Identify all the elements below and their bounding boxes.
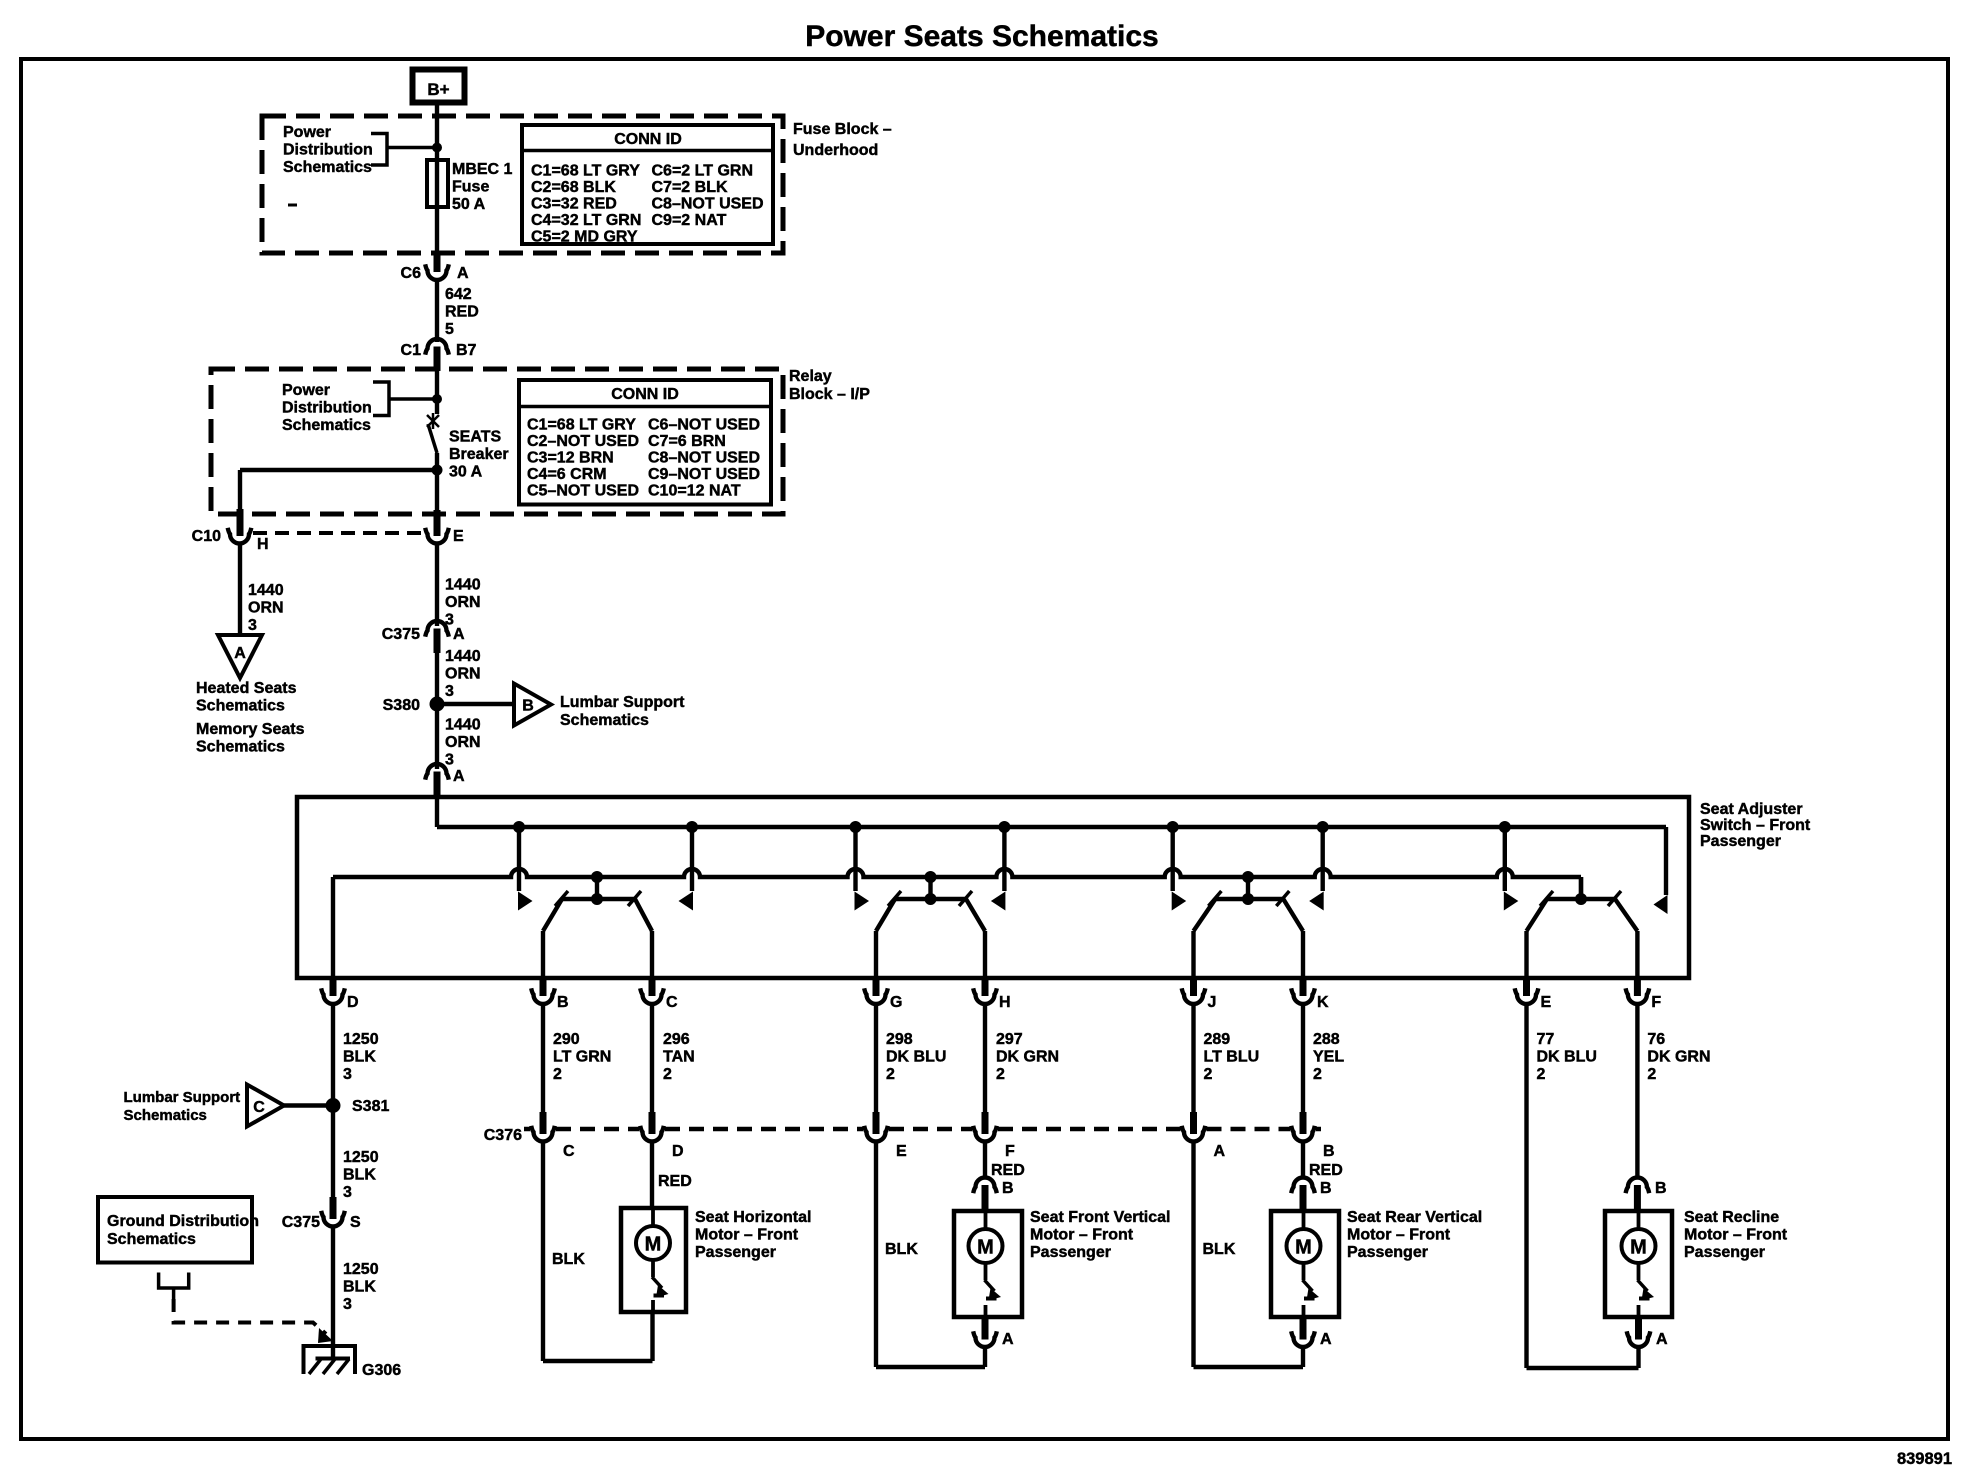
svg-text:M: M xyxy=(977,1237,994,1259)
svg-text:2: 2 xyxy=(1313,1066,1322,1083)
svg-text:B: B xyxy=(522,698,534,715)
svg-text:S380: S380 xyxy=(383,697,420,714)
svg-text:C3=12 BRN: C3=12 BRN xyxy=(527,450,614,467)
svg-text:D: D xyxy=(347,994,359,1011)
svg-text:C376: C376 xyxy=(484,1127,522,1144)
svg-text:Power Seats Schematics: Power Seats Schematics xyxy=(805,20,1159,53)
svg-text:MBEC 1: MBEC 1 xyxy=(452,161,513,178)
svg-text:ORN: ORN xyxy=(445,666,481,683)
svg-text:290: 290 xyxy=(553,1031,580,1048)
svg-text:C: C xyxy=(253,1099,265,1116)
svg-text:C1=68 LT GRY: C1=68 LT GRY xyxy=(531,163,640,180)
svg-text:G306: G306 xyxy=(362,1362,401,1379)
svg-text:C2–NOT USED: C2–NOT USED xyxy=(527,433,639,450)
svg-text:LT BLU: LT BLU xyxy=(1204,1049,1260,1066)
svg-text:CONN ID: CONN ID xyxy=(611,386,679,403)
svg-text:A: A xyxy=(453,768,465,785)
svg-text:2: 2 xyxy=(553,1066,562,1083)
svg-text:BLK: BLK xyxy=(1203,1241,1236,1258)
svg-text:F: F xyxy=(1005,1143,1015,1160)
svg-text:M: M xyxy=(1630,1237,1647,1259)
svg-text:1440: 1440 xyxy=(445,648,481,665)
svg-text:C: C xyxy=(666,994,678,1011)
svg-text:A: A xyxy=(1320,1331,1332,1348)
svg-text:SEATS: SEATS xyxy=(449,429,501,446)
svg-text:76: 76 xyxy=(1647,1031,1665,1048)
svg-text:A: A xyxy=(1656,1331,1668,1348)
svg-text:C5=2 MD GRY: C5=2 MD GRY xyxy=(531,229,638,246)
svg-text:C7=6 BRN: C7=6 BRN xyxy=(648,433,726,450)
svg-text:Heated Seats: Heated Seats xyxy=(196,680,297,697)
svg-text:C1=68 LT GRY: C1=68 LT GRY xyxy=(527,417,636,434)
svg-text:1440: 1440 xyxy=(248,582,284,599)
svg-text:2: 2 xyxy=(1204,1066,1213,1083)
svg-text:Motor – Front: Motor – Front xyxy=(1684,1227,1788,1244)
svg-text:S381: S381 xyxy=(352,1098,389,1115)
svg-text:Relay: Relay xyxy=(789,368,832,385)
svg-text:C4=6 CRM: C4=6 CRM xyxy=(527,466,607,483)
svg-text:RED: RED xyxy=(1309,1162,1343,1179)
svg-text:C1: C1 xyxy=(401,342,422,359)
svg-text:E: E xyxy=(1541,994,1552,1011)
svg-text:J: J xyxy=(1208,994,1217,1011)
svg-text:3: 3 xyxy=(343,1184,352,1201)
svg-text:B: B xyxy=(1655,1180,1667,1197)
svg-text:2: 2 xyxy=(1537,1066,1546,1083)
svg-text:BLK: BLK xyxy=(343,1167,376,1184)
svg-text:5: 5 xyxy=(445,321,454,338)
svg-text:K: K xyxy=(1317,994,1329,1011)
svg-text:288: 288 xyxy=(1313,1031,1340,1048)
svg-text:B: B xyxy=(557,994,569,1011)
svg-text:A: A xyxy=(457,265,469,282)
svg-text:Passenger: Passenger xyxy=(695,1244,776,1261)
svg-text:296: 296 xyxy=(663,1031,690,1048)
svg-text:Seat Recline: Seat Recline xyxy=(1684,1209,1779,1226)
svg-text:30 A: 30 A xyxy=(449,464,483,481)
svg-text:2: 2 xyxy=(886,1066,895,1083)
svg-text:G: G xyxy=(890,994,902,1011)
svg-text:TAN: TAN xyxy=(663,1049,695,1066)
svg-text:Breaker: Breaker xyxy=(449,446,509,463)
svg-text:E: E xyxy=(453,528,464,545)
svg-text:C375: C375 xyxy=(282,1214,320,1231)
svg-text:C8–NOT USED: C8–NOT USED xyxy=(648,450,760,467)
svg-text:BLK: BLK xyxy=(343,1049,376,1066)
svg-text:B: B xyxy=(1320,1180,1332,1197)
svg-text:298: 298 xyxy=(886,1031,913,1048)
svg-text:C: C xyxy=(563,1143,575,1160)
svg-text:Seat Front Vertical: Seat Front Vertical xyxy=(1030,1209,1171,1226)
svg-text:Lumbar Support: Lumbar Support xyxy=(560,694,685,711)
svg-text:DK BLU: DK BLU xyxy=(1537,1049,1597,1066)
svg-text:E: E xyxy=(896,1143,907,1160)
svg-text:2: 2 xyxy=(1647,1066,1656,1083)
svg-text:3: 3 xyxy=(343,1296,352,1313)
svg-text:297: 297 xyxy=(996,1031,1023,1048)
svg-text:Passenger: Passenger xyxy=(1030,1244,1111,1261)
svg-text:M: M xyxy=(1295,1237,1312,1259)
svg-text:H: H xyxy=(999,994,1011,1011)
svg-text:ORN: ORN xyxy=(248,600,284,617)
svg-text:B+: B+ xyxy=(427,80,449,99)
svg-text:DK BLU: DK BLU xyxy=(886,1049,946,1066)
svg-text:50 A: 50 A xyxy=(452,196,486,213)
svg-text:642: 642 xyxy=(445,286,472,303)
svg-text:Ground Distribution: Ground Distribution xyxy=(107,1213,259,1230)
svg-text:A: A xyxy=(234,645,246,662)
svg-text:Motor – Front: Motor – Front xyxy=(695,1227,799,1244)
svg-text:Distribution: Distribution xyxy=(282,400,372,417)
svg-text:C10: C10 xyxy=(192,528,221,545)
svg-text:Fuse Block –: Fuse Block – xyxy=(793,121,892,138)
svg-text:Schematics: Schematics xyxy=(196,698,285,715)
svg-text:M: M xyxy=(645,1234,662,1256)
svg-text:3: 3 xyxy=(343,1066,352,1083)
svg-text:Fuse: Fuse xyxy=(452,179,489,196)
svg-text:D: D xyxy=(672,1143,684,1160)
svg-text:C8–NOT USED: C8–NOT USED xyxy=(652,196,764,213)
svg-text:Switch – Front: Switch – Front xyxy=(1700,817,1811,834)
svg-text:RED: RED xyxy=(658,1173,692,1190)
svg-text:BLK: BLK xyxy=(343,1279,376,1296)
svg-text:H: H xyxy=(257,536,269,553)
svg-text:1250: 1250 xyxy=(343,1031,379,1048)
svg-text:Distribution: Distribution xyxy=(283,142,373,159)
svg-text:3: 3 xyxy=(248,617,257,634)
svg-text:2: 2 xyxy=(996,1066,1005,1083)
svg-text:YEL: YEL xyxy=(1313,1049,1344,1066)
svg-text:Power: Power xyxy=(283,124,331,141)
svg-text:Passenger: Passenger xyxy=(1347,1244,1428,1261)
svg-text:Power: Power xyxy=(282,382,330,399)
svg-text:C2=68 BLK: C2=68 BLK xyxy=(531,179,616,196)
svg-text:C9–NOT USED: C9–NOT USED xyxy=(648,466,760,483)
svg-text:C6–NOT USED: C6–NOT USED xyxy=(648,417,760,434)
svg-text:B: B xyxy=(1002,1180,1014,1197)
svg-text:Block – I/P: Block – I/P xyxy=(789,386,870,403)
svg-text:CONN ID: CONN ID xyxy=(614,131,682,148)
svg-text:C4=32 LT GRN: C4=32 LT GRN xyxy=(531,212,641,229)
svg-text:RED: RED xyxy=(445,304,479,321)
svg-text:289: 289 xyxy=(1204,1031,1231,1048)
svg-text:1440: 1440 xyxy=(445,577,481,594)
svg-text:Schematics: Schematics xyxy=(282,417,371,434)
svg-text:Schematics: Schematics xyxy=(560,712,649,729)
svg-text:S: S xyxy=(350,1214,361,1231)
svg-text:Schematics: Schematics xyxy=(196,739,285,756)
svg-text:BLK: BLK xyxy=(552,1251,585,1268)
svg-text:C7=2 BLK: C7=2 BLK xyxy=(652,179,728,196)
svg-text:Motor – Front: Motor – Front xyxy=(1030,1227,1134,1244)
svg-text:C6=2 LT GRN: C6=2 LT GRN xyxy=(652,163,754,180)
svg-text:Underhood: Underhood xyxy=(793,142,878,159)
svg-text:A: A xyxy=(453,626,465,643)
svg-text:A: A xyxy=(1214,1143,1226,1160)
svg-text:RED: RED xyxy=(991,1162,1025,1179)
svg-text:839891: 839891 xyxy=(1897,1450,1952,1468)
svg-text:Passenger: Passenger xyxy=(1700,833,1781,850)
svg-text:BLK: BLK xyxy=(885,1241,918,1258)
svg-text:3: 3 xyxy=(445,683,454,700)
svg-text:C5–NOT USED: C5–NOT USED xyxy=(527,483,639,500)
svg-text:Seat Horizontal: Seat Horizontal xyxy=(695,1209,811,1226)
svg-text:C6: C6 xyxy=(401,265,422,282)
svg-text:A: A xyxy=(1002,1331,1014,1348)
svg-text:LT GRN: LT GRN xyxy=(553,1049,611,1066)
svg-text:Memory Seats: Memory Seats xyxy=(196,721,305,738)
svg-text:3: 3 xyxy=(445,752,454,769)
svg-text:Passenger: Passenger xyxy=(1684,1244,1765,1261)
svg-text:ORN: ORN xyxy=(445,594,481,611)
svg-text:Lumbar Support: Lumbar Support xyxy=(124,1089,241,1106)
svg-text:1250: 1250 xyxy=(343,1149,379,1166)
svg-text:DK GRN: DK GRN xyxy=(1647,1049,1710,1066)
svg-text:Seat Rear Vertical: Seat Rear Vertical xyxy=(1347,1209,1482,1226)
svg-text:Schematics: Schematics xyxy=(107,1231,196,1248)
svg-text:Seat Adjuster: Seat Adjuster xyxy=(1700,801,1803,818)
svg-text:F: F xyxy=(1651,994,1661,1011)
svg-text:Schematics: Schematics xyxy=(283,159,372,176)
svg-text:2: 2 xyxy=(663,1066,672,1083)
svg-text:C375: C375 xyxy=(382,626,420,643)
svg-text:DK GRN: DK GRN xyxy=(996,1049,1059,1066)
svg-text:C9=2 NAT: C9=2 NAT xyxy=(652,212,727,229)
svg-text:C10=12 NAT: C10=12 NAT xyxy=(648,483,741,500)
svg-text:1250: 1250 xyxy=(343,1261,379,1278)
svg-text:1440: 1440 xyxy=(445,717,481,734)
svg-text:ORN: ORN xyxy=(445,734,481,751)
svg-text:Motor – Front: Motor – Front xyxy=(1347,1227,1451,1244)
svg-text:77: 77 xyxy=(1537,1031,1555,1048)
svg-text:B: B xyxy=(1323,1143,1335,1160)
svg-text:B7: B7 xyxy=(456,342,477,359)
svg-text:Schematics: Schematics xyxy=(124,1107,207,1124)
svg-text:C3=32 RED: C3=32 RED xyxy=(531,196,617,213)
